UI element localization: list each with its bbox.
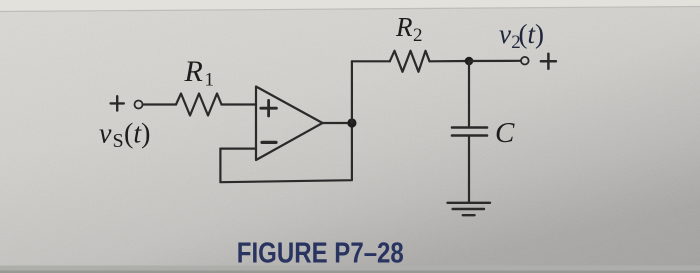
- label v2(t): [499, 19, 544, 53]
- input terminal + sign: [111, 96, 124, 110]
- op-amp U1 triangle: [256, 87, 323, 161]
- wire R1 to op-amp + input: [222, 103, 257, 105]
- svg-text:2: 2: [413, 25, 423, 46]
- wire feedback to - input: [220, 148, 256, 150]
- output terminal + sign: [541, 54, 556, 69]
- svg-text:S: S: [113, 130, 124, 152]
- node output junction dot: [347, 118, 356, 127]
- capacitor C top plate: [452, 126, 487, 129]
- svg-text:R: R: [184, 55, 203, 88]
- svg-text:(t): (t): [519, 19, 545, 49]
- svg-text:(t): (t): [124, 119, 150, 150]
- wire to R2: [352, 60, 390, 62]
- op-amp + input label: [261, 100, 277, 116]
- wire R2 to node: [430, 60, 470, 62]
- node capacitor junction dot: [465, 57, 474, 66]
- wire capacitor to ground: [468, 137, 470, 203]
- output terminal open circle: [521, 57, 529, 65]
- op-amp - input label: [262, 141, 276, 144]
- svg-text:v: v: [99, 119, 112, 150]
- resistor R2: [390, 51, 430, 72]
- svg-text:1: 1: [205, 70, 215, 91]
- svg-text:R: R: [395, 12, 413, 42]
- feedback wire loop: [220, 123, 352, 182]
- input terminal open circle: [135, 101, 143, 109]
- capacitor C bottom plate: [452, 134, 487, 137]
- wire node down to capacitor: [468, 61, 470, 126]
- svg-text:v: v: [499, 19, 511, 49]
- svg-text:FIGURE P7–28: FIGURE P7–28: [237, 238, 404, 270]
- resistor R1: [176, 94, 222, 116]
- wire node to output terminal: [469, 60, 521, 62]
- wire terminal to R1: [143, 103, 176, 105]
- wire output up: [351, 61, 353, 123]
- ground symbol: [448, 203, 491, 215]
- wire op-amp output: [323, 122, 352, 124]
- svg-text:C: C: [495, 117, 515, 149]
